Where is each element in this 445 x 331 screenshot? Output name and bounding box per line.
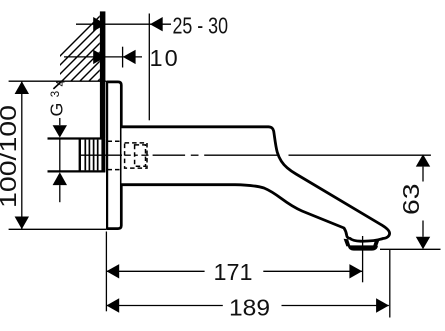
dimension 189 arrow left: [106, 298, 119, 312]
label G 3/4: [47, 80, 68, 117]
svg-text:171: 171: [214, 259, 253, 285]
hidden pipe edges through escutcheon (dashed): [108, 141, 120, 169]
dimension G 3/4 arrow bottom: [53, 172, 67, 185]
svg-text:63: 63: [398, 184, 424, 216]
dimension 25-30 arrow left: [93, 17, 106, 31]
hidden coupling outer contour (dashed): [125, 143, 147, 168]
dimension 189 lines: [106, 249, 389, 317]
dimension 171 arrow right: [349, 264, 362, 278]
dimension 100/100 arrow bottom: [15, 217, 29, 230]
aerator right wall: [373, 239, 380, 247]
dimension 25-30 lines: [76, 14, 171, 121]
aerator left wall: [344, 239, 351, 247]
dimension G 3/4 arrow top: [53, 125, 67, 137]
escutcheon plate outline: [107, 82, 122, 229]
spout body outline: [122, 127, 390, 241]
escutcheon wall-side edge: [106, 81, 108, 230]
wall section hatch: [26, 0, 188, 90]
dimension G 3/4 lines: [59, 118, 61, 202]
svg-text:3: 3: [50, 91, 62, 97]
svg-text:25 - 30: 25 - 30: [173, 13, 229, 39]
dimension 171 arrow left: [106, 264, 119, 278]
svg-text:4: 4: [56, 80, 68, 87]
dimension 63 lines: [380, 167, 441, 250]
svg-text:189: 189: [229, 294, 270, 320]
pipe nipple bottom edge: [48, 170, 106, 172]
dimension 100/100 arrow top: [15, 81, 29, 94]
dimension 171 lines: [106, 232, 362, 312]
dimension 189 arrow right: [376, 298, 389, 312]
dimension 10 arrow right: [123, 50, 136, 64]
dimension 10 arrow left: [93, 50, 106, 64]
dimension 10 lines: [64, 47, 142, 68]
pipe nipple top edge: [48, 137, 106, 139]
wall surface line (behind pipe): [101, 139, 105, 173]
hidden coupling inner contour (dashed): [135, 145, 146, 166]
wall surface line (above pipe): [100, 11, 106, 138]
dimension 100/100 lines: [9, 81, 107, 229]
dimension 63 arrow top: [416, 154, 430, 166]
svg-text:10: 10: [150, 45, 180, 71]
thread crest lines: [85, 140, 97, 171]
aerator bottom rim: [348, 245, 378, 250]
svg-text:G: G: [47, 103, 67, 117]
dimension 25-30 arrow right: [150, 17, 163, 31]
svg-text:100/100: 100/100: [0, 105, 21, 208]
center line: [79, 154, 431, 156]
thread start edge: [79, 139, 81, 172]
dimension 63 arrow bottom: [416, 237, 430, 249]
